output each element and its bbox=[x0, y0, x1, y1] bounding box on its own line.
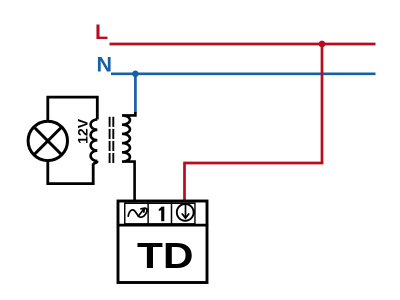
terminal cell 2 bbox=[148, 203, 171, 224]
svg-text:L: L bbox=[95, 20, 108, 44]
terminal 2 label "1" bbox=[159, 207, 165, 222]
wire red horizontal to TD bbox=[185, 162, 324, 165]
svg-text:TD: TD bbox=[137, 235, 194, 276]
svg-text:N: N bbox=[97, 53, 113, 77]
TD divider bbox=[117, 224, 209, 227]
wire red drop from L junction bbox=[321, 44, 324, 163]
node L junction bbox=[319, 41, 326, 48]
transformer primary winding (right, mains side) + wire into TD terminal 1 bbox=[122, 112, 135, 200]
wire red drop into TD terminal 3 bbox=[183, 162, 186, 201]
node N junction bbox=[132, 71, 139, 78]
wire L line bbox=[110, 43, 376, 46]
transformer core bbox=[109, 117, 111, 164]
transformer secondary winding (left, 12V side) bbox=[91, 119, 98, 161]
wire lamp loop bottom bbox=[48, 161, 93, 184]
svg-text:12V: 12V bbox=[74, 118, 90, 144]
wire lamp loop top bbox=[48, 97, 98, 121]
wire secondary exit bbox=[93, 161, 97, 163]
terminal 1 dimmer symbol (sine with arrow) bbox=[128, 208, 147, 217]
lamp (12V load) bbox=[28, 121, 67, 160]
terminal cell 1 bbox=[125, 203, 148, 224]
terminal 3 symbol circle with down arrow bbox=[177, 204, 194, 221]
wire blue drop from N to transformer primary bbox=[134, 74, 137, 113]
terminal cell 3 bbox=[172, 203, 195, 224]
wire N line bbox=[111, 72, 376, 75]
TD dimmer device box bbox=[118, 201, 207, 283]
